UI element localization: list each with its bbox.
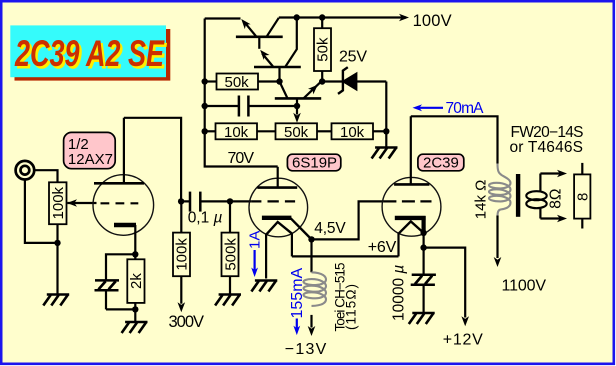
zener diode 25V bbox=[322, 67, 386, 94]
node Q2 base / Q3 collector bbox=[276, 78, 282, 84]
capacitor 0,1u coupling bbox=[181, 192, 251, 212]
transformer core bbox=[516, 174, 520, 217]
title banner "2C39 A2 SE" bbox=[10, 25, 170, 80]
capacitor C regulator bbox=[205, 96, 297, 117]
wire plate to transformer (70mA line) bbox=[411, 116, 498, 163]
current annotation 70mA bbox=[413, 100, 485, 117]
svg-text:1A: 1A bbox=[247, 231, 264, 249]
ground 500k bbox=[215, 295, 241, 306]
ground 10000u bbox=[409, 313, 435, 324]
wire pot wiper arrow bbox=[296, 106, 298, 115]
potentiometer 50k bbox=[276, 123, 332, 139]
tube label 6S19P bbox=[287, 154, 340, 171]
wire grid V1 to pot wiper bbox=[67, 202, 96, 204]
resistor 50k left bbox=[205, 74, 280, 90]
node V3 cathode / heater bbox=[420, 230, 426, 236]
svg-text:+12V: +12V bbox=[443, 332, 483, 349]
resistor 2k bbox=[127, 254, 144, 321]
node cathode / 10000u / +12V bbox=[420, 244, 426, 250]
node Q2 collector / 100V rail bbox=[294, 14, 300, 20]
arrowhead 100V bbox=[399, 14, 409, 22]
wire V2 cathode to 4.5V node bbox=[291, 218, 312, 239]
resistor 10k left bbox=[205, 123, 276, 139]
wire jack ground side bbox=[25, 179, 58, 243]
resistor 10k right bbox=[332, 123, 387, 139]
transistor Q1 bbox=[236, 17, 283, 49]
arrowhead pot wiper V1 grid bbox=[67, 199, 77, 207]
svg-text:6S19P: 6S19P bbox=[292, 155, 337, 172]
node dot 4.5V bbox=[308, 236, 314, 242]
arrowhead secondary bottom bbox=[557, 215, 567, 223]
node V1 cathode bbox=[132, 251, 138, 257]
ground input pot bbox=[43, 295, 69, 306]
node 50k top / 100V rail bbox=[319, 14, 325, 20]
tube V1 12AX7 bbox=[93, 118, 154, 255]
wire 100V rail bbox=[279, 16, 406, 18]
node left rail / divider row bbox=[202, 128, 208, 134]
svg-text:70V: 70V bbox=[228, 150, 255, 167]
wire V1 plate to coupling cap bbox=[124, 118, 181, 202]
capacitor cathode bypass bbox=[95, 280, 120, 309]
node left rail / cap row bbox=[202, 103, 208, 109]
resistor 500k grid leak bbox=[222, 201, 239, 293]
resistor 100k plate load bbox=[173, 201, 190, 303]
ground V2 heater bbox=[251, 281, 277, 292]
ground (zener divider) bbox=[372, 148, 398, 159]
svg-text:50k: 50k bbox=[284, 124, 309, 141]
wire cap to 2k bottom bbox=[106, 308, 135, 310]
svg-text:25V: 25V bbox=[339, 49, 367, 66]
capacitor 10000u bbox=[411, 248, 436, 312]
wire left rail bbox=[205, 19, 278, 167]
choke Toei CH-515 bbox=[304, 239, 327, 327]
svg-text:or T4646S: or T4646S bbox=[510, 139, 584, 156]
svg-text:70mA: 70mA bbox=[446, 100, 485, 117]
svg-text:12AX7: 12AX7 bbox=[68, 151, 113, 168]
wire top-left to Q1 emitter bbox=[205, 17, 241, 19]
svg-text:100k: 100k bbox=[50, 186, 67, 219]
svg-text:8Ω: 8Ω bbox=[547, 189, 564, 209]
heater V3 bbox=[399, 221, 424, 256]
wire cathode node down bbox=[423, 233, 425, 248]
ground 2k cathode bbox=[122, 322, 148, 333]
svg-text:155mA: 155mA bbox=[289, 267, 306, 318]
arrowhead -13V bbox=[308, 326, 316, 336]
potentiometer 100k input bbox=[49, 182, 67, 294]
wire zener to ground bbox=[385, 82, 387, 147]
svg-text:300V: 300V bbox=[169, 313, 205, 331]
svg-text:2k: 2k bbox=[128, 273, 145, 289]
current annotation 1A bbox=[247, 231, 264, 277]
svg-text:10000 µ: 10000 µ bbox=[391, 265, 408, 321]
svg-text:2C39: 2C39 bbox=[423, 155, 459, 172]
wire cathode branch bbox=[106, 254, 135, 280]
transistor Q2 bbox=[254, 18, 301, 82]
node 10k right / zener ground line bbox=[383, 128, 389, 134]
heater V2 bbox=[266, 222, 292, 279]
arrowhead +12V bbox=[461, 316, 469, 326]
wire jack to pot bbox=[34, 170, 58, 182]
svg-text:8: 8 bbox=[575, 193, 592, 201]
tube label 1/2 12AX7 bbox=[64, 132, 116, 168]
svg-text:2C39 A2 SE: 2C39 A2 SE bbox=[14, 33, 165, 74]
node 2k bottom / bypass cap bbox=[132, 306, 138, 312]
transformer primary 14k bbox=[489, 164, 511, 259]
transistor Q3 bbox=[275, 82, 321, 107]
node Q3 emitter / zener bbox=[319, 78, 325, 84]
tube V3 2C39 bbox=[382, 116, 441, 236]
input jack bbox=[16, 161, 35, 180]
wire 4.5V node to V3 grid bbox=[312, 201, 384, 239]
svg-text:50k: 50k bbox=[225, 74, 250, 91]
wire heater 6V line bbox=[292, 255, 399, 257]
current annotation 155mA bbox=[289, 267, 306, 335]
svg-text:4,5V: 4,5V bbox=[314, 220, 346, 237]
load resistor 8 bbox=[574, 163, 590, 229]
svg-text:−13V: −13V bbox=[285, 341, 327, 358]
svg-text:1100V: 1100V bbox=[502, 278, 547, 295]
resistor 50k vertical bbox=[314, 18, 331, 82]
svg-text:100V: 100V bbox=[413, 12, 452, 30]
arrowhead 300V bbox=[178, 302, 186, 312]
svg-text:0,1 µ: 0,1 µ bbox=[188, 210, 223, 227]
svg-text:50k: 50k bbox=[315, 37, 332, 62]
node Q3 base / cap bbox=[294, 103, 300, 109]
svg-text:500k: 500k bbox=[222, 238, 239, 271]
svg-text:10k: 10k bbox=[340, 124, 365, 141]
node V2 grid / 500k bbox=[227, 198, 233, 204]
wire to +12V bbox=[424, 248, 466, 318]
svg-text:100k: 100k bbox=[174, 238, 191, 271]
svg-text:10k: 10k bbox=[224, 124, 249, 141]
svg-text:(115Ω): (115Ω) bbox=[344, 284, 359, 330]
arrowhead pot wiper bbox=[293, 113, 301, 123]
node pot bottom / jack ground bbox=[54, 240, 60, 246]
arrowhead 1100V bbox=[494, 257, 502, 267]
svg-text:+6V: +6V bbox=[368, 239, 397, 256]
tube V2 6S19P bbox=[249, 167, 308, 237]
svg-text:14k Ω: 14k Ω bbox=[472, 180, 489, 220]
transformer secondary 8 ohm bbox=[526, 174, 560, 219]
tube label 2C39 bbox=[418, 154, 464, 171]
node left rail / 50k row bbox=[202, 78, 208, 84]
node V1 plate / coupling cap bbox=[178, 198, 184, 204]
arrowhead secondary top bbox=[557, 170, 567, 178]
